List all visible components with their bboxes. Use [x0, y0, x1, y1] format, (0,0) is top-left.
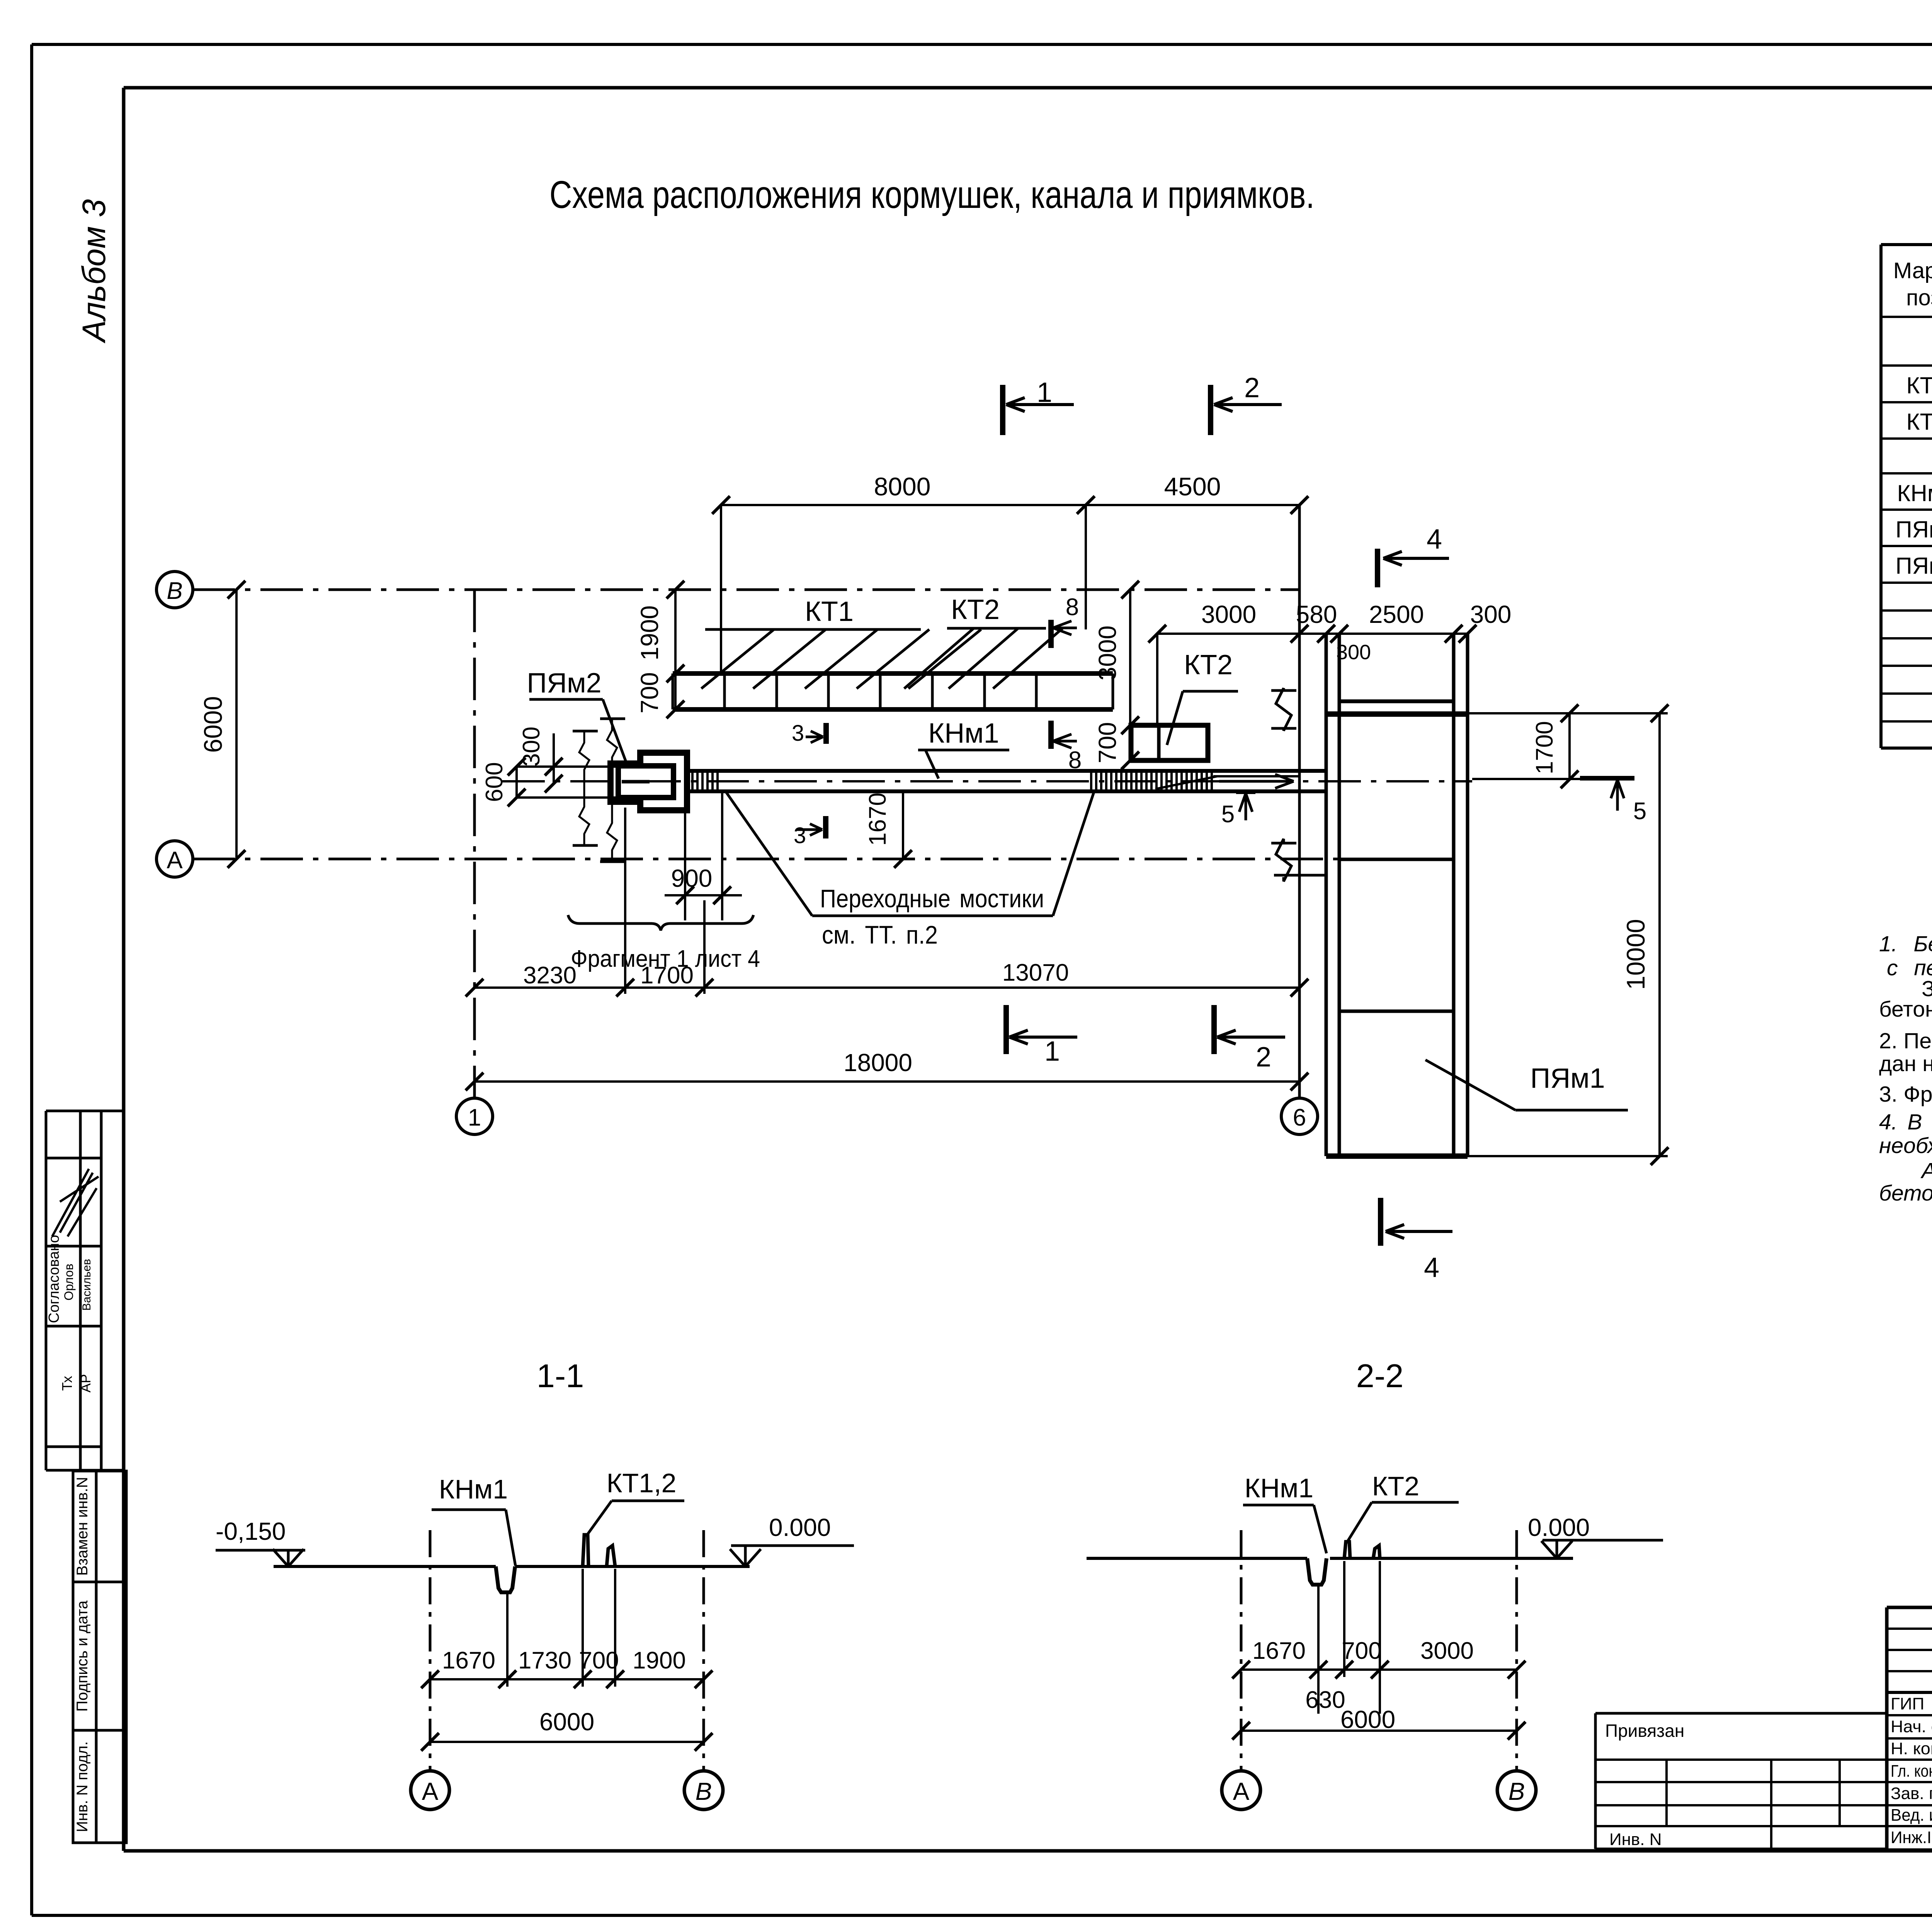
svg-text:1700: 1700 [640, 962, 694, 989]
svg-text:8000: 8000 [874, 472, 931, 501]
svg-text:2500: 2500 [1369, 600, 1424, 628]
svg-text:1900: 1900 [633, 1647, 686, 1674]
svg-text:5: 5 [1633, 798, 1646, 825]
svg-text:ПЯм2: ПЯм2 [527, 668, 601, 699]
svg-text:2: 2 [1256, 1042, 1271, 1073]
svg-text:ПЯм1: ПЯм1 [1895, 517, 1932, 543]
svg-text:Вед. инж.: Вед. инж. [1891, 1806, 1932, 1825]
svg-text:3: 3 [792, 721, 804, 746]
svg-text:1: 1 [1037, 377, 1052, 408]
svg-text:300: 300 [1470, 600, 1512, 628]
svg-text:1900: 1900 [636, 605, 663, 660]
svg-text:ПЯм1: ПЯм1 [1530, 1063, 1605, 1094]
svg-text:4: 4 [1424, 1252, 1439, 1283]
svg-text:Анкерные болты в колодцах: Анкерные болты в колодцах после их устан… [1920, 1158, 1932, 1183]
svg-text:КТ2: КТ2 [1906, 409, 1932, 435]
svg-text:КНм1: КНм1 [1245, 1473, 1313, 1503]
svg-text:2: 2 [1244, 372, 1260, 403]
svg-text:13070: 13070 [1002, 959, 1069, 986]
svg-text:1. Бетонные блоки необходимо: 1. Бетонные блоки необходимо укладывать … [1879, 932, 1932, 956]
svg-text:5: 5 [1221, 801, 1235, 828]
svg-text:580: 580 [1296, 600, 1337, 628]
svg-text:Переходные мостики: Переходные мостики [820, 884, 1044, 913]
svg-text:Инв. N: Инв. N [1609, 1830, 1662, 1849]
svg-text:Нач. отд.: Нач. отд. [1891, 1717, 1932, 1736]
svg-text:1670: 1670 [442, 1647, 495, 1674]
svg-text:В: В [1509, 1777, 1525, 1805]
svg-text:КТ1,2: КТ1,2 [607, 1468, 677, 1498]
svg-text:В: В [167, 578, 182, 604]
svg-text:КТ2: КТ2 [951, 594, 1000, 625]
svg-text:дан на листе 4 ).: дан на листе 4 ). [1879, 1051, 1932, 1076]
svg-text:Привязан: Привязан [1605, 1721, 1684, 1741]
svg-text:Н. контр.: Н. контр. [1891, 1739, 1932, 1758]
svg-text:необходимо втрамбовать слой: необходимо втрамбовать слой щебня или гр… [1879, 1133, 1932, 1158]
svg-text:Схема расположения кормушек,: Схема расположения кормушек, канала и пр… [549, 173, 1315, 216]
svg-text:700: 700 [1342, 1638, 1381, 1664]
svg-text:3. Фрагмент 1 и разрезы 3-3,: 3. Фрагмент 1 и разрезы 3-3,.. 8-8 см. н… [1879, 1082, 1932, 1107]
svg-text:Марка: Марка [1893, 258, 1932, 283]
svg-text:А: А [422, 1777, 439, 1805]
svg-text:1: 1 [1044, 1036, 1060, 1067]
svg-text:700: 700 [579, 1647, 619, 1674]
svg-text:Тх: Тх [59, 1376, 75, 1391]
svg-text:КТ2: КТ2 [1372, 1471, 1419, 1501]
svg-text:Инж.I кат.: Инж.I кат. [1891, 1828, 1932, 1847]
svg-text:4: 4 [1427, 524, 1442, 555]
svg-text:6: 6 [1293, 1104, 1306, 1131]
svg-text:1: 1 [468, 1104, 481, 1131]
svg-text:Инв. N подл.: Инв. N подл. [74, 1741, 91, 1832]
svg-text:бетоном класса В 7,5 F150.: бетоном класса В 7,5 F150. [1879, 997, 1932, 1022]
svg-text:6000: 6000 [199, 696, 227, 753]
svg-text:4. В основание фундаментов п: 4. В основание фундаментов под оборудова… [1879, 1110, 1932, 1134]
svg-text:бетоном класса В15 на мелк: бетоном класса В15 на мелкозернистом зап… [1879, 1181, 1932, 1206]
svg-text:3: 3 [794, 823, 806, 848]
svg-text:КНм1: КНм1 [1897, 480, 1932, 506]
svg-text:поз.: поз. [1906, 285, 1932, 310]
svg-text:КНм1: КНм1 [439, 1474, 508, 1504]
svg-text:600: 600 [481, 762, 508, 802]
svg-text:Согласовано: Согласовано [46, 1235, 62, 1323]
svg-text:Зав. гр.: Зав. гр. [1891, 1784, 1932, 1803]
svg-text:6000: 6000 [1340, 1706, 1395, 1733]
svg-text:3000: 3000 [1094, 626, 1121, 680]
svg-text:Альбом 3: Альбом 3 [76, 199, 112, 344]
svg-text:3000: 3000 [1201, 600, 1256, 628]
svg-text:1670: 1670 [864, 793, 891, 846]
svg-text:1-1: 1-1 [537, 1358, 584, 1395]
svg-text:700: 700 [636, 672, 663, 714]
svg-text:630: 630 [1305, 1687, 1345, 1713]
svg-text:Взамен инв.N: Взамен инв.N [74, 1477, 91, 1576]
svg-text:3000: 3000 [1420, 1638, 1474, 1664]
svg-text:2. Переходные мостики изгото: 2. Переходные мостики изготовить по мест… [1879, 1029, 1932, 1053]
svg-text:4500: 4500 [1164, 472, 1221, 501]
svg-text:АР: АР [78, 1374, 94, 1393]
svg-text:10000: 10000 [1621, 919, 1650, 990]
svg-text:2-2: 2-2 [1356, 1358, 1404, 1395]
svg-text:3230: 3230 [523, 962, 577, 989]
svg-text:Васильев: Васильев [80, 1259, 93, 1311]
svg-text:18000: 18000 [844, 1049, 912, 1077]
svg-text:ГИП: ГИП [1891, 1694, 1924, 1713]
svg-text:КНм1: КНм1 [928, 718, 999, 749]
svg-text:КТ2: КТ2 [1184, 650, 1233, 680]
svg-text:300: 300 [518, 726, 545, 766]
svg-text:КТ1: КТ1 [1906, 372, 1932, 398]
svg-text:700: 700 [1094, 722, 1121, 764]
svg-text:0.000: 0.000 [1528, 1514, 1590, 1541]
svg-text:1730: 1730 [518, 1647, 571, 1674]
svg-text:300: 300 [1336, 641, 1371, 664]
svg-text:см. ТТ. п.2: см. ТТ. п.2 [822, 920, 938, 949]
svg-text:Гл. констр.: Гл. констр. [1891, 1762, 1932, 1781]
svg-text:Подпись и дата: Подпись и дата [74, 1600, 91, 1711]
svg-text:-0,150: -0,150 [216, 1517, 286, 1545]
svg-text:900: 900 [671, 864, 713, 892]
svg-text:В: В [696, 1777, 712, 1805]
svg-text:Орлов: Орлов [62, 1264, 76, 1300]
svg-text:КТ1: КТ1 [805, 596, 854, 627]
svg-text:ПЯм2: ПЯм2 [1895, 553, 1932, 579]
svg-text:А: А [167, 847, 183, 874]
svg-text:0.000: 0.000 [769, 1514, 831, 1541]
svg-text:6000: 6000 [539, 1708, 594, 1736]
svg-text:8: 8 [1066, 594, 1079, 621]
svg-text:А: А [1233, 1777, 1250, 1805]
svg-text:1700: 1700 [1531, 721, 1558, 774]
svg-text:1670: 1670 [1252, 1638, 1306, 1664]
